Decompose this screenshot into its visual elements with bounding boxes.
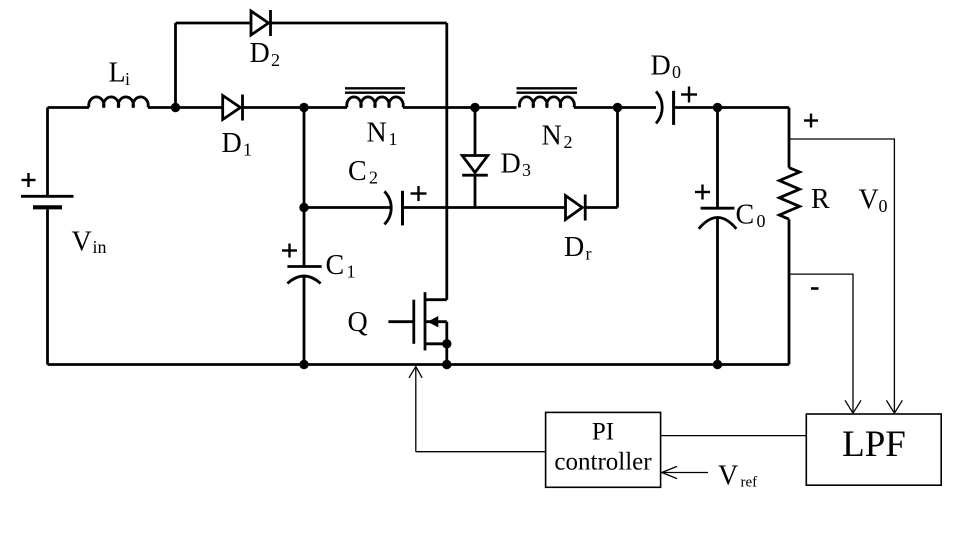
label N2 <box>542 121 573 153</box>
label R <box>811 184 830 215</box>
transistor Q channel bar <box>424 292 427 350</box>
capacitor-style diode D0 <box>656 91 674 125</box>
wire Dr branch vertical <box>616 108 619 208</box>
gate drive arrowhead <box>409 367 422 378</box>
svg-text:C: C <box>326 250 345 281</box>
svg-text:Q: Q <box>348 307 368 338</box>
svg-text:D: D <box>651 51 671 82</box>
node C0 bottom on rail <box>714 361 721 368</box>
wire Li to D1 <box>148 106 223 109</box>
label C0 <box>736 200 766 232</box>
svg-text:3: 3 <box>522 160 531 180</box>
resistor R <box>779 168 799 220</box>
svg-text:i: i <box>125 69 130 89</box>
svg-text:2: 2 <box>564 132 573 152</box>
svg-text:V: V <box>859 185 879 216</box>
svg-text:V: V <box>72 227 92 258</box>
node C1 bottom on rail <box>301 361 308 368</box>
PI controller box <box>546 412 661 487</box>
capacitor C1 <box>287 267 321 284</box>
plus sign C0 <box>695 185 710 200</box>
label Dr <box>564 232 592 264</box>
node junction Li/D2 <box>172 104 179 111</box>
label Vin <box>72 227 107 258</box>
label C1 <box>326 250 356 282</box>
label Li <box>109 57 131 89</box>
svg-text:LPF: LPF <box>842 424 906 465</box>
sense wire minus <box>790 274 853 411</box>
wire source to rail <box>445 344 448 365</box>
wire body to source <box>445 322 448 344</box>
svg-text:L: L <box>109 57 126 88</box>
svg-text:0: 0 <box>757 211 766 231</box>
wire bottom rail <box>48 363 790 366</box>
wire D2 loop left vertical <box>174 23 177 108</box>
svg-text:1: 1 <box>347 261 356 281</box>
transistor Q body arrow <box>428 316 439 327</box>
inductor Li <box>89 97 149 108</box>
capacitor C0 <box>699 208 737 229</box>
arrowhead minus into LPF <box>845 400 861 413</box>
sense wire plus <box>790 139 894 412</box>
wire D2 to drain corner <box>271 22 447 25</box>
plus sign D0 <box>681 87 697 103</box>
svg-text:C: C <box>736 200 755 231</box>
minus sign output <box>811 287 819 290</box>
svg-text:ref: ref <box>741 475 758 491</box>
label D0 <box>651 51 682 83</box>
transistor Q source stub <box>425 342 447 345</box>
wire C0 branch lower <box>716 218 719 365</box>
diode D1 <box>223 95 243 121</box>
capacitor C2 <box>384 191 402 226</box>
svg-text:1: 1 <box>243 140 252 160</box>
transformer winding N2 <box>517 88 578 107</box>
transformer winding N1 <box>345 88 405 107</box>
arrowhead plus into LPF <box>886 400 902 413</box>
label N1 <box>367 118 398 149</box>
wire R bottom lead <box>788 219 791 364</box>
wire C1 branch upper <box>303 108 306 267</box>
gate drive wire horizontal <box>416 451 546 453</box>
svg-text:D: D <box>250 38 270 69</box>
svg-text:controller: controller <box>554 448 652 475</box>
wire PI to LPF <box>661 435 807 437</box>
svg-text:0: 0 <box>879 196 888 216</box>
plus sign C2 <box>411 186 427 201</box>
wire R top lead <box>788 108 791 168</box>
wire D0 to C0 junction <box>675 106 789 109</box>
wire C2 to Dr <box>403 206 566 209</box>
svg-text:2: 2 <box>271 50 280 70</box>
diode D2 <box>251 10 271 36</box>
wire Dr to vertical <box>585 206 617 209</box>
wire left vertical lower <box>46 209 49 364</box>
node junction C2 left <box>301 204 308 211</box>
svg-text:D: D <box>564 232 584 263</box>
label D1 <box>222 128 253 160</box>
battery Vin <box>21 196 74 207</box>
svg-text:N: N <box>367 118 387 149</box>
transistor Q gate bar <box>412 300 415 344</box>
diode D3 <box>462 156 488 176</box>
plus sign C1 <box>282 244 297 258</box>
node junction D3 top <box>472 104 479 111</box>
LPF box <box>806 414 941 485</box>
plus sign battery <box>22 173 36 187</box>
label D2 <box>250 38 281 70</box>
svg-text:D: D <box>501 149 521 180</box>
svg-text:C: C <box>348 156 367 187</box>
wire top-left horizontal <box>48 106 90 109</box>
svg-text:D: D <box>222 128 242 159</box>
plus sign output <box>804 114 818 128</box>
node body/source junction <box>444 341 451 348</box>
svg-text:r: r <box>586 244 592 264</box>
svg-text:R: R <box>811 184 830 215</box>
wire D3 branch upper <box>474 108 477 156</box>
label Q <box>348 307 368 338</box>
node junction C1 branch <box>301 104 308 111</box>
Vref arrow line <box>663 472 709 474</box>
label D3 <box>501 149 532 181</box>
wire C1 branch lower <box>303 275 306 365</box>
svg-text:PI: PI <box>592 419 614 446</box>
label C2 <box>348 156 378 188</box>
wire N1 to N2 <box>403 106 517 109</box>
node junction N2/Dr/D0 <box>614 104 621 111</box>
label PI controller text <box>554 419 652 476</box>
transistor Q body stub <box>425 320 447 323</box>
wire C2 line left <box>304 206 391 209</box>
Vref arrowhead <box>662 466 677 478</box>
svg-text:N: N <box>542 121 562 152</box>
svg-text:0: 0 <box>672 62 681 82</box>
svg-text:in: in <box>93 237 107 257</box>
svg-text:V: V <box>718 460 738 491</box>
wire top to D2 <box>176 22 252 25</box>
wire C0 branch upper <box>716 108 719 209</box>
label V0 <box>859 185 888 217</box>
wire D1 to N1 <box>243 106 348 109</box>
wire drain vertical <box>445 23 448 300</box>
wire N2 to D0 <box>574 106 656 109</box>
transistor Q gate lead <box>388 320 413 323</box>
gate drive wire vertical <box>415 367 417 452</box>
svg-text:1: 1 <box>389 129 398 149</box>
node source on rail <box>444 361 451 368</box>
wire left vertical upper <box>46 108 49 196</box>
label Vref <box>718 460 757 491</box>
transistor Q drain stub <box>425 298 447 301</box>
node junction D0/C0/R <box>714 104 721 111</box>
svg-text:2: 2 <box>369 168 378 188</box>
wire D3 branch lower <box>474 175 477 207</box>
label LPF text <box>842 424 906 465</box>
diode Dr <box>566 195 586 221</box>
